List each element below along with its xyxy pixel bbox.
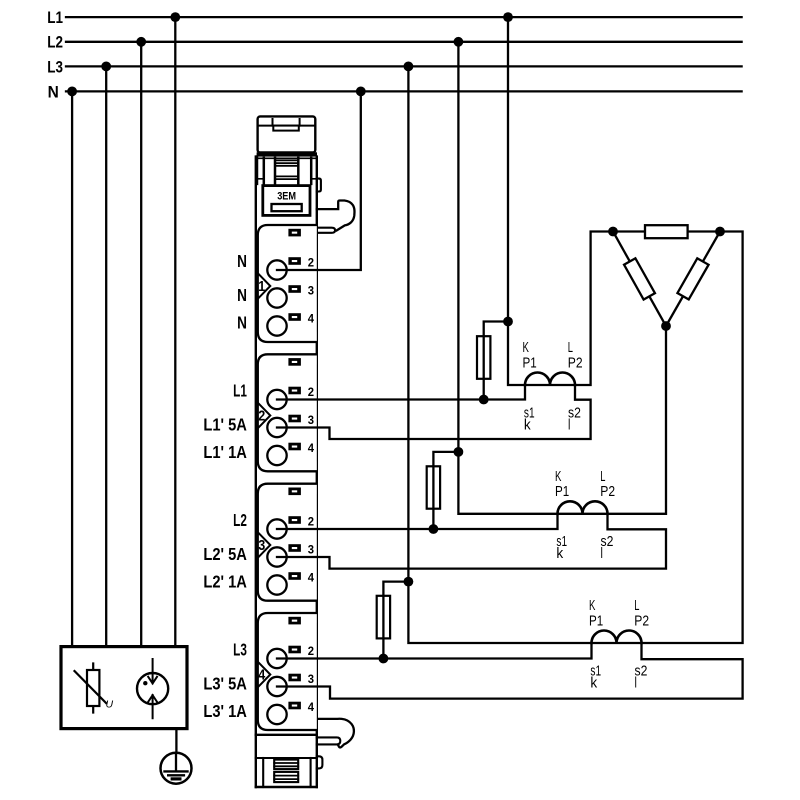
block 4 (L3) pin 4 mark [288, 702, 301, 710]
load delta top branch wire [613, 230, 720, 232]
block 4 (L3) terminal circle 2 [267, 649, 286, 668]
svg-text:L3: L3 [47, 58, 63, 77]
varistor RU [75, 664, 107, 713]
svg-text:L1' 5A: L1' 5A [203, 415, 247, 435]
block 3 (L2) pin 2 mark [288, 516, 301, 524]
svg-text:L2' 5A: L2' 5A [203, 545, 247, 565]
block 3 (L2) group marker diamond [258, 532, 270, 557]
svg-text:P2: P2 [634, 612, 649, 629]
svg-text:L: L [634, 597, 639, 614]
block 4 (L3) pin 3 mark [288, 674, 301, 682]
svg-text:L2: L2 [47, 34, 63, 53]
block 4 (L3) pin 2 mark [288, 646, 301, 654]
junction node F3 out [379, 654, 389, 664]
svg-text:N: N [48, 84, 59, 101]
svg-text:k: k [556, 546, 564, 563]
load resistor R1 top [645, 225, 688, 238]
svg-text:4: 4 [308, 570, 315, 585]
junction node L2-left [136, 37, 146, 47]
svg-text:4: 4 [258, 667, 265, 683]
svg-text:P1: P1 [555, 483, 569, 500]
module mid section walls [257, 157, 311, 184]
svg-text:2: 2 [308, 643, 315, 658]
junction node N-left [67, 87, 77, 97]
module mid side ticks [257, 178, 316, 180]
block 4 (L3) group marker diamond [258, 662, 270, 687]
block 1 (N) group marker diamond [258, 273, 270, 298]
power rail L1 [47, 9, 741, 28]
block 3 (L2) terminal circle 3 [267, 547, 286, 566]
module bottom right tab [317, 756, 323, 768]
svg-text:4: 4 [308, 311, 315, 326]
module bottom housing shelf [256, 757, 317, 759]
surge protection device box U1 [61, 647, 187, 729]
module top latch left pin [272, 119, 274, 126]
svg-text:3: 3 [308, 283, 315, 298]
load resistor R3 right [677, 258, 708, 299]
svg-text:N: N [237, 286, 247, 305]
module body right side [316, 157, 318, 787]
load delta left branch wire [613, 232, 666, 327]
module bottom latch upper stripes [274, 763, 298, 766]
junction node L3-left [101, 62, 111, 72]
mounting hook bottom capsule [317, 737, 341, 744]
block 1 (N) terminal circle 3 [267, 288, 286, 307]
module right tab [317, 179, 321, 192]
block 3 (L2) pin 4 mark [288, 572, 301, 580]
module 3EM top housing [258, 116, 316, 152]
block 1 (N) terminal circle 2 [267, 260, 286, 279]
module label window [272, 204, 302, 211]
svg-text:L1: L1 [233, 381, 247, 401]
svg-text:L: L [600, 468, 605, 485]
junction node L1-left [170, 12, 180, 22]
module bottom latch lower stripes [274, 776, 298, 780]
load resistor R2 left [624, 258, 655, 299]
block 2 (L1) terminal circle 3 [267, 418, 286, 437]
module mid section top ledge [257, 157, 316, 159]
junction node F2 tap [454, 447, 464, 457]
block 1 (N) pin 2 mark [288, 257, 301, 265]
svg-text:P1: P1 [589, 612, 603, 629]
module bottom housing left rib [262, 758, 264, 787]
mounting hook top capsule [317, 228, 335, 233]
block 2 (L1) pin 1 mark [288, 358, 301, 366]
junction node L2-rail [454, 37, 464, 47]
wire L3 drop to SPD box [105, 66, 107, 646]
module bottom housing right rib [310, 758, 312, 787]
wire module L2 terminal 3.2 to CT2 secondary s1 [277, 514, 558, 529]
module body left side [255, 157, 257, 787]
block 2 (L1) pin 3 mark [288, 415, 301, 423]
block 2 (L1) terminal circle 2 [267, 390, 286, 409]
wire L3 phase drop through CT3 primary to load node B [408, 66, 742, 643]
terminal block 3 (L2) outline [258, 484, 317, 601]
svg-text:L3: L3 [233, 640, 247, 660]
load node A [608, 227, 618, 237]
svg-text:L3' 5A: L3' 5A [203, 674, 247, 694]
power rail N [48, 84, 742, 101]
junction node F2 out [429, 524, 439, 534]
svg-text:L1' 1A: L1' 1A [203, 443, 247, 463]
module bottom edge [256, 786, 317, 788]
svg-text:2: 2 [308, 255, 315, 270]
block 1 (N) pin 3 mark [288, 285, 301, 293]
terminal block 2 (L1) outline [258, 354, 317, 471]
block 2 (L1) group marker diamond [258, 403, 270, 428]
wire L2 drop to SPD box [140, 42, 142, 647]
voltage monitor M1 [137, 659, 168, 718]
terminal block 1 (N) outline [258, 225, 317, 342]
svg-text:N: N [237, 252, 247, 271]
block 3 (L2) pin 3 mark [288, 544, 301, 552]
module bottom divider [256, 734, 317, 736]
block 1 (N) terminal circle 4 [267, 316, 286, 335]
svg-text:L: L [568, 339, 573, 356]
svg-text:3: 3 [308, 542, 315, 557]
load node C [661, 321, 671, 331]
svg-text:L3' 1A: L3' 1A [203, 702, 247, 722]
block 4 (L3) pin 1 mark [288, 617, 301, 625]
junction node F1 out [479, 395, 489, 405]
block 1 (N) pin 1 mark [288, 229, 301, 237]
svg-text:2: 2 [258, 408, 265, 424]
module bottom latch lower [274, 772, 298, 782]
wire module terminal 1.2 to N rail [277, 91, 361, 270]
module top latch right pin [299, 119, 301, 126]
svg-text:P2: P2 [600, 483, 615, 500]
svg-text:3: 3 [258, 537, 265, 553]
wire module L3 terminal 4.2 to CT3 secondary s1 [277, 643, 592, 659]
terminal block 4 (L3) outline [258, 613, 317, 730]
module top latch plate [273, 126, 299, 131]
mounting hook bottom [317, 719, 354, 748]
module label box [263, 186, 310, 216]
svg-text:1: 1 [258, 278, 265, 294]
load delta right branch wire [666, 232, 720, 327]
wire module L3-5A terminal 4.3 to CT3 secondary s2 [277, 643, 743, 699]
wire module L2-5A terminal 3.3 to CT2 secondary s2 [277, 514, 666, 569]
module mid section clamp stripes [275, 160, 298, 179]
current transformer T3 primary winding [592, 631, 642, 644]
svg-text:3: 3 [308, 671, 315, 686]
svg-text:P2: P2 [568, 354, 583, 371]
svg-text:N: N [237, 314, 247, 333]
block 4 (L3) terminal circle 3 [267, 677, 286, 696]
junction node F1 tap [503, 317, 513, 327]
junction node F3 tap [404, 577, 414, 587]
module dark band [257, 152, 317, 156]
wire L1 phase drop through CT1 primary to load node A [508, 17, 613, 385]
junction node N-rail-drop [356, 87, 366, 97]
fuse F1 [477, 322, 508, 400]
block 4 (L3) terminal circle 4 [267, 705, 286, 724]
wire L2 phase drop through CT2 primary to load node C [458, 42, 666, 514]
block 2 (L1) pin 2 mark [288, 387, 301, 395]
wire module L1 terminal 2.2 to CT1 secondary s1 [277, 385, 525, 400]
wire SPD box to earth [175, 729, 177, 754]
fuse F3 [377, 582, 409, 659]
current transformer T2 primary winding [558, 501, 608, 514]
module bottom latch upper [274, 760, 298, 770]
svg-text:4: 4 [308, 699, 315, 714]
svg-text:4: 4 [308, 440, 315, 455]
svg-text:3EM: 3EM [277, 191, 296, 203]
svg-text:2: 2 [308, 384, 315, 399]
block 3 (L2) terminal circle 4 [267, 575, 286, 594]
fuse F2 [427, 452, 459, 529]
svg-text:k: k [524, 417, 532, 434]
svg-text:P1: P1 [523, 354, 537, 371]
mounting hook top [317, 201, 355, 231]
svg-text:k: k [590, 675, 598, 692]
svg-text:2: 2 [308, 514, 315, 529]
svg-text:L2: L2 [233, 511, 247, 531]
power rail L2 [47, 34, 741, 53]
block 3 (L2) terminal circle 2 [267, 519, 286, 538]
svg-text:3: 3 [308, 412, 315, 427]
junction node L3-rail [404, 62, 414, 72]
load node B [715, 227, 725, 237]
block 3 (L2) pin 1 mark [288, 488, 301, 496]
current transformer T1 primary winding [525, 373, 575, 386]
svg-text:l: l [601, 544, 603, 561]
wire module L1-5A terminal 2.3 to CT1 secondary s2 [277, 385, 591, 439]
svg-text:L2' 1A: L2' 1A [203, 572, 247, 592]
svg-text:l: l [635, 674, 637, 691]
power rail L3 [47, 58, 741, 77]
junction node L1-rail [503, 12, 513, 22]
svg-text:l: l [568, 416, 570, 433]
block 1 (N) pin 4 mark [288, 313, 301, 321]
block 2 (L1) terminal circle 4 [267, 446, 286, 465]
module top housing inner ledge [259, 125, 314, 127]
earth ground symbol [161, 753, 192, 784]
wire N drop to SPD box [71, 91, 73, 646]
block 2 (L1) pin 4 mark [288, 443, 301, 451]
svg-text:U: U [106, 699, 114, 711]
wire L1 drop to SPD box [174, 17, 176, 647]
svg-text:L1: L1 [47, 9, 63, 28]
